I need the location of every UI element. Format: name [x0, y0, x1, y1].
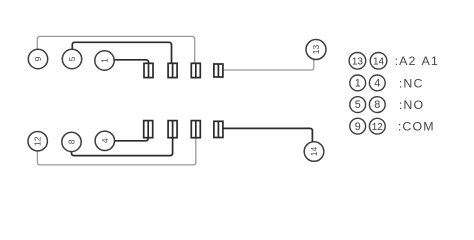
pin 9: [28, 49, 47, 68]
wire top contact C4 to pin13 (gray): [223, 60, 314, 70]
pin 4: [95, 131, 114, 150]
legend row 4: pins 9 12 = COM: [350, 118, 435, 134]
contact C2 (NO pole1): [168, 63, 177, 77]
pin 13 (coil A2): [306, 40, 326, 60]
pin 12: [28, 132, 47, 151]
contact C4 (coil top): [214, 64, 223, 77]
svg-text:1: 1: [355, 78, 361, 90]
wire pin5 to contact C2: [72, 42, 171, 63]
svg-text:8: 8: [374, 99, 380, 111]
svg-text:9: 9: [33, 56, 43, 61]
svg-text:9: 9: [355, 121, 361, 133]
pin 8: [62, 132, 81, 151]
wire pin1 to contact C1: [114, 60, 148, 64]
contact C2b (NO pole2): [168, 121, 177, 138]
wire pin8 to contact C2b: [72, 138, 173, 156]
svg-text:5: 5: [67, 56, 77, 61]
contact C1 (NC pole1): [144, 63, 153, 77]
wire pin4 to contact C1b: [115, 138, 149, 141]
contact C4b (coil bottom): [214, 121, 223, 137]
svg-text:12: 12: [33, 136, 43, 146]
pin 5: [62, 49, 81, 68]
svg-text:5: 5: [355, 99, 361, 111]
svg-text:13: 13: [311, 45, 321, 55]
contact C3 (COM pole1): [191, 63, 200, 77]
pin 1: [95, 51, 114, 70]
svg-text::NO: :NO: [399, 98, 424, 112]
legend row 2: pins 1 4 = NC: [350, 75, 424, 91]
svg-text:13: 13: [352, 56, 364, 67]
wire pin12 to contact C3b (gray): [37, 138, 195, 165]
svg-text::NC: :NC: [399, 76, 424, 90]
pin 14 (coil A1): [304, 142, 324, 162]
legend row 1: pins 13 14 = A2 A1: [349, 53, 439, 70]
legend row 3: pins 5 8 = NO: [350, 97, 424, 113]
contact C3b (COM pole2): [191, 121, 200, 138]
wire pin9 to contact C3 (gray): [37, 36, 194, 63]
svg-text:8: 8: [67, 139, 77, 144]
wire bottom contact C4b to pin14: [223, 128, 313, 141]
svg-text:4: 4: [374, 78, 380, 90]
svg-text::COM: :COM: [398, 120, 435, 134]
svg-text:12: 12: [372, 122, 384, 133]
svg-text:1: 1: [100, 58, 110, 63]
svg-text:14: 14: [309, 147, 319, 157]
svg-text:4: 4: [100, 138, 110, 143]
contact C1b (NC pole2): [144, 121, 153, 138]
svg-text::A2 A1: :A2 A1: [395, 54, 439, 68]
svg-text:14: 14: [373, 56, 385, 67]
